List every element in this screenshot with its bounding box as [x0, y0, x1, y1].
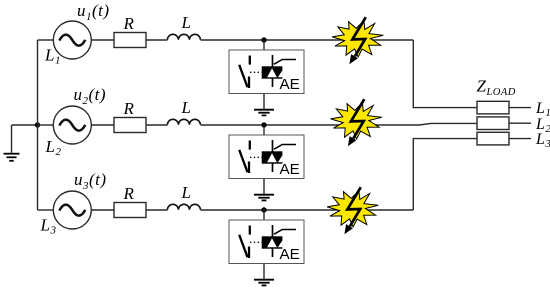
load impedance ZLOAD L1: [477, 101, 509, 114]
resistor R (phase 3): [114, 203, 146, 218]
wire: [509, 122, 531, 124]
svg-text:R: R: [123, 14, 135, 33]
wire: [12, 124, 38, 126]
resistor R (phase 1): [114, 33, 146, 48]
load impedance ZLOAD L2: [477, 117, 509, 130]
svg-text:L: L: [181, 98, 192, 117]
svg-text:L3: L3: [40, 216, 57, 237]
svg-text:L: L: [181, 183, 192, 202]
wire: [146, 39, 168, 41]
svg-text:L2: L2: [45, 137, 62, 158]
wire: [146, 124, 168, 126]
voltage source u2: [53, 106, 91, 144]
inductor L (phase 3): [167, 204, 200, 210]
wire: [201, 123, 478, 125]
wire: [91, 209, 114, 211]
resistor R (phase 2): [114, 118, 146, 133]
voltage source u3: [53, 191, 91, 229]
svg-text:u1(t): u1(t): [77, 1, 110, 23]
svg-text:ZLOAD: ZLOAD: [477, 77, 516, 99]
inductor L (phase 1): [167, 34, 200, 39]
wire: [146, 209, 168, 211]
voltage source u1: [53, 21, 91, 59]
wire: [201, 39, 414, 41]
wire: [38, 124, 54, 126]
wire: [201, 209, 414, 211]
svg-text:u3(t): u3(t): [74, 170, 107, 192]
svg-text:R: R: [123, 99, 135, 118]
wire: [91, 39, 114, 41]
svg-text:u2(t): u2(t): [74, 85, 107, 107]
inductor L (phase 2): [167, 119, 200, 125]
arrester AE (phase 3: switch + triac + ground): [229, 210, 304, 285]
wire: [38, 39, 54, 41]
wire: [38, 209, 54, 211]
ground: [4, 125, 20, 161]
node A2: [261, 122, 266, 127]
wire: [91, 124, 114, 126]
spark flash (phase 2): [331, 99, 382, 146]
node A1: [261, 37, 266, 42]
svg-text:L: L: [181, 13, 192, 32]
spark flash (phase 3): [327, 187, 378, 234]
wire: [509, 138, 531, 140]
wire: [413, 40, 477, 108]
wire: [37, 40, 39, 210]
load impedance ZLOAD L3: [477, 132, 509, 145]
arrester AE (phase 1: switch + triac + ground): [229, 40, 304, 115]
svg-text:R: R: [123, 184, 135, 203]
node N (neutral junction): [35, 122, 40, 127]
node A3: [261, 207, 266, 212]
wire: [509, 107, 531, 109]
arrester AE (phase 2: switch + triac + ground): [229, 125, 304, 200]
spark flash (phase 1): [332, 17, 383, 64]
wire: [413, 139, 477, 210]
